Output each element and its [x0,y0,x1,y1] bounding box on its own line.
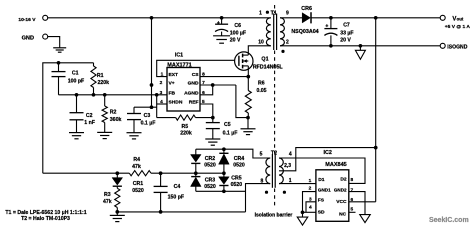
wire C3 to V+ node [134,106,157,108]
svg-text:8: 8 [350,177,353,183]
diode CR2 0520 [195,149,197,154]
svg-text:IC1: IC1 [175,53,183,59]
svg-text:D1: D1 [318,177,325,183]
wire left vertical to CR1 node [43,172,130,174]
svg-text:1: 1 [161,71,164,77]
svg-text:FB: FB [169,90,176,96]
wire FS loop [306,202,316,213]
svg-text:R5: R5 [181,124,188,130]
svg-text:1: 1 [309,178,312,184]
svg-text:C4: C4 [174,184,181,190]
iso ground (IC2 left) [297,217,308,225]
wire T1 pin10 to Q1 drain [248,46,270,53]
wire V+ feed from rail [151,18,153,107]
resistor R6 0.05 [247,77,249,91]
svg-text:Isolation barrier: Isolation barrier [255,213,293,219]
svg-text:out: out [457,17,464,22]
svg-text:CR3: CR3 [205,177,215,183]
resistor R4 47k [129,171,151,176]
bridge bottom rail [196,190,246,192]
capacitor C6 100uF [220,16,224,20]
capacitor C7 33uF [330,18,332,29]
svg-text:100 µF: 100 µF [230,30,246,36]
svg-text:1: 1 [259,11,262,17]
capacitor C1 [58,63,60,72]
svg-text:C7: C7 [343,23,350,29]
svg-text:10: 10 [258,40,264,46]
svg-text:AGND: AGND [184,90,199,96]
svg-text:CR5: CR5 [231,176,241,182]
svg-text:100 pF: 100 pF [68,78,84,84]
svg-text:C6: C6 [234,23,241,29]
svg-text:NSQ03A04: NSQ03A04 [291,29,318,35]
resistor R2 360k [104,95,106,106]
diode CR6 NSQ03A04 [302,13,310,23]
svg-text:4: 4 [289,152,292,158]
svg-text:2: 2 [309,185,312,191]
diode CR4 0520 [223,149,225,153]
svg-text:33 µF: 33 µF [340,31,353,37]
svg-text:RFD14N05L: RFD14N05L [253,64,284,70]
bottom primary rail [117,211,245,213]
svg-text:R6: R6 [258,80,265,86]
svg-text:+: + [217,20,220,26]
iso ground (IC2 right) [360,215,371,223]
wire EXT (IC1 pin 1) to Q1 gate [157,60,235,76]
IC2 MAX845 box [316,170,349,222]
wire GND terminal to ground [48,37,60,48]
svg-text:0520: 0520 [231,182,243,188]
svg-text:CS: CS [192,72,200,78]
T1 polarity dot top [266,11,269,14]
svg-text:0520: 0520 [132,188,144,194]
wire CS to Q1 source [200,76,248,78]
T2 core [271,154,273,188]
svg-text:R3: R3 [104,192,111,198]
svg-text:R2: R2 [110,109,117,115]
wire T1 pin9 to CR6 [280,17,302,19]
wire AGND pin6 loop [200,85,213,95]
svg-text:T2 = Halo TM-010P3: T2 = Halo TM-010P3 [21,216,70,222]
ground (R6) [247,118,249,129]
wire NC stub [349,211,356,213]
T1 polarity dot bottom [281,50,284,53]
wire T2 pin1 to IC2 D1 [279,183,316,185]
svg-text:9: 9 [286,11,289,17]
IC1 MAX1771 box [167,68,200,112]
wire T2 center tap [279,148,376,171]
svg-text:CR4: CR4 [234,156,244,162]
svg-text:ISOGND: ISOGND [447,44,467,50]
svg-text:150 pF: 150 pF [168,194,184,200]
svg-text:0520: 0520 [233,163,245,169]
svg-text:R1: R1 [97,73,104,79]
svg-text:NC: NC [339,212,347,218]
resistor R1 220k [93,63,95,66]
wire bottom rail up to T2 pin 8 [246,184,271,212]
FB divider wire (node FB) [59,94,168,96]
wire GND2 to iso ground [349,192,365,215]
wire VCC feed [349,201,376,203]
svg-text:MAX1771: MAX1771 [167,63,191,69]
+5V vertical wire [375,18,377,202]
svg-text:+5 V @ 1 A: +5 V @ 1 A [445,24,471,30]
wire FB/SHDN vertical [156,95,158,118]
T1 core [273,14,275,51]
svg-text:V+: V+ [169,81,175,87]
svg-text:CR6: CR6 [301,6,312,12]
svg-text:C1: C1 [72,71,79,77]
svg-text:2,3: 2,3 [284,163,291,169]
svg-text:T1: T1 [271,10,277,16]
svg-text:47k: 47k [103,199,112,205]
capacitor C2 1nF [76,95,78,113]
transformer T1 right winding [280,18,284,46]
svg-text:CR2: CR2 [205,156,215,162]
svg-text:3: 3 [160,90,163,96]
svg-text:SHDN: SHDN [169,100,183,106]
transformer T2 right winding [279,158,283,184]
svg-text:10-16 V: 10-16 V [18,17,36,23]
isolation barrier dashed line [274,5,276,13]
svg-text:C3: C3 [144,113,151,119]
diode CR3 0520 [195,173,197,176]
svg-text:20 V: 20 V [230,38,241,44]
svg-text:REF: REF [189,100,199,106]
wire T2 pin4 to IC2 D2 [279,158,365,183]
svg-text:Q1: Q1 [261,57,268,63]
diode CR1 0520 [116,173,118,177]
svg-text:5: 5 [260,152,263,158]
svg-text:MAX845: MAX845 [325,162,346,168]
ground (C3) [127,132,142,134]
svg-text:FS: FS [318,198,325,204]
svg-text:1: 1 [289,178,292,184]
ISOGND rail wire [280,45,440,47]
svg-text:GND1: GND1 [318,187,331,192]
svg-text:20 V: 20 V [340,38,351,44]
svg-text:220k: 220k [98,80,110,86]
resistor R5 220k [157,117,176,119]
svg-text:7: 7 [350,187,353,193]
svg-text:R4: R4 [133,157,140,163]
capacitor C5 0.1uF [212,118,214,123]
bridge top rail [196,149,270,158]
svg-text:0520: 0520 [204,163,216,169]
svg-text:T2: T2 [271,150,277,156]
svg-text:0520: 0520 [204,184,216,190]
svg-text:4: 4 [309,204,312,210]
ground (C6) [213,35,230,37]
svg-text:220k: 220k [180,131,192,137]
svg-text:2: 2 [286,40,289,46]
svg-text:5: 5 [350,206,353,212]
transformer T1 left winding [266,18,270,46]
wire SHDN stub [157,103,167,105]
ground (R3) [116,212,118,216]
wire REF pin5 [200,104,213,118]
svg-text:IC2: IC2 [324,150,332,156]
wire SD [303,211,316,213]
svg-text:SeekIC.com: SeekIC.com [429,217,469,224]
iso ground (output) [359,46,361,51]
svg-text:1 nF: 1 nF [84,120,95,126]
svg-text:CR1: CR1 [133,181,143,187]
wire GND net to R6 bottom [236,85,248,118]
ISOGND terminal [440,43,445,48]
Vout rail wire [311,17,440,19]
svg-text:VCC: VCC [336,199,347,205]
ground (C5) [205,138,220,140]
T2 polarity dots [265,191,268,194]
svg-text:EXT: EXT [169,72,179,78]
svg-text:GND: GND [188,81,199,87]
top rail wire (10-16V to T1 pin 1) [48,17,271,19]
GND input terminal [43,34,48,39]
resistor R3 47k [115,188,120,207]
svg-text:C5: C5 [224,122,231,128]
svg-text:360k: 360k [110,117,122,123]
svg-text:C2: C2 [86,113,93,119]
diode CR5 0520 [223,173,225,177]
svg-text:4: 4 [160,99,163,105]
svg-text:47k: 47k [132,164,141,170]
node C1/R1 top wire [43,63,94,173]
wire GND pin7 [200,84,236,86]
mid feedback rail [151,172,224,174]
capacitor C4 150pF [160,173,162,186]
ground (input GND) [53,47,66,49]
svg-text:T1 = Dale LPE-6562 10 µH 1:1:1: T1 = Dale LPE-6562 10 µH 1:1:1:1 [5,210,86,216]
svg-text:0.1 µF: 0.1 µF [223,130,238,136]
svg-text:GND: GND [22,36,34,42]
svg-text:+: + [325,23,328,29]
ground (C2) [69,132,84,134]
svg-text:SD: SD [318,210,325,216]
ground (R2) [97,131,112,133]
Vout terminal [440,15,445,20]
svg-text:8: 8 [261,178,264,184]
svg-text:0.1 µF: 0.1 µF [141,120,156,126]
svg-text:GND2: GND2 [334,187,347,192]
capacitor C3 0.1uF [133,107,135,113]
svg-text:2: 2 [160,80,163,86]
input terminal 10-16 V [43,15,48,20]
svg-text:D2: D2 [340,177,347,183]
wire GND1 to iso ground [303,192,316,218]
transformer T2 left winding [266,158,270,184]
svg-text:0.05: 0.05 [256,88,266,94]
transistor Q1 RFD14N05L [235,52,253,70]
